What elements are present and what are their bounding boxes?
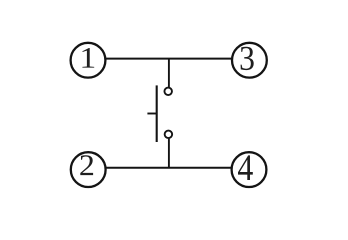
switch SW1 upper fixed contact [164,88,172,96]
pin 3 terminal circle [232,43,267,78]
wire bottom horizontal pin2 to pin4 [106,167,232,169]
pin 4 number label [238,155,253,180]
pin 2 number label [80,155,93,175]
switch SW1 push tick [147,113,156,115]
wire top horizontal pin1 to pin3 [106,58,232,60]
pin 1 number label [82,48,94,68]
pin 3 number label [241,47,254,70]
pin 4 terminal circle [232,152,267,187]
switch SW1 lower fixed contact [165,131,173,139]
wire vertical stub from top wire to upper contact [168,59,170,88]
pin 1 terminal circle [71,43,106,78]
wire vertical stub from lower contact to bottom wire [168,138,170,168]
switch SW1 actuator bar [156,85,158,142]
pin 2 terminal circle [71,152,106,187]
